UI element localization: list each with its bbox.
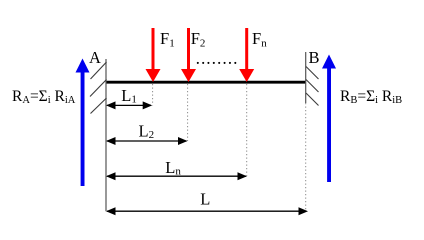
svg-text:........: ........ <box>196 48 239 68</box>
support A hatching <box>90 62 107 114</box>
dimension L1 <box>106 101 152 109</box>
support B hatching <box>306 67 319 106</box>
force arrow F1 <box>146 28 161 82</box>
svg-text:A: A <box>89 48 101 67</box>
dimension Ln <box>106 172 247 180</box>
svg-text:B: B <box>309 48 320 67</box>
support B wall line <box>305 52 307 103</box>
force arrow Fn <box>239 28 254 82</box>
projection dotted line B <box>305 103 307 211</box>
svg-text:L: L <box>200 190 210 209</box>
support A wall line <box>105 59 107 211</box>
beam <box>106 81 307 84</box>
projection dotted line Fn <box>246 84 248 176</box>
projection dotted line F2 <box>187 84 189 141</box>
dimension L <box>106 207 308 215</box>
force arrow F2 <box>181 28 196 82</box>
reaction arrow RB <box>322 55 336 183</box>
reaction arrow RA <box>76 59 90 187</box>
projection dotted line F1 <box>152 84 154 105</box>
dimension L2 <box>106 137 188 145</box>
